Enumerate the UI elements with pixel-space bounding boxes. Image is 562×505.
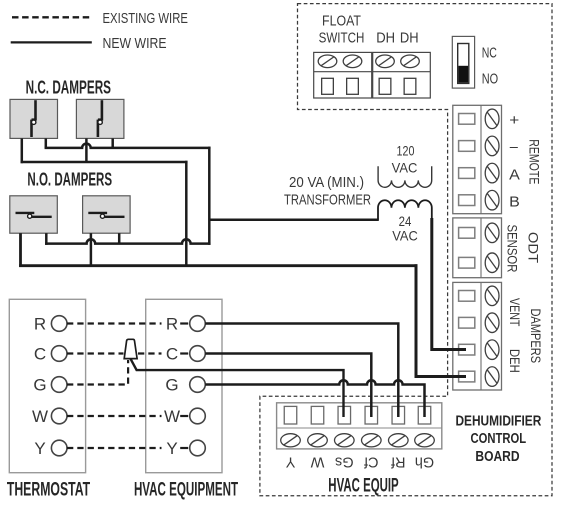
svg-text:CONTROL: CONTROL: [471, 431, 527, 447]
legend existing-wire sample: [12, 16, 92, 18]
HVAC EQUIP terminal strip: [277, 403, 442, 449]
svg-text:NC: NC: [482, 45, 497, 62]
wire: NC1 left terminal down: [21, 138, 24, 163]
svg-text:Rf: Rf: [390, 454, 405, 470]
svg-text:120: 120: [397, 143, 415, 159]
svg-text:N.C. DAMPERS: N.C. DAMPERS: [26, 77, 111, 97]
svg-text:FLOAT: FLOAT: [322, 12, 361, 29]
wire: NO2 left terminal down: [90, 233, 93, 266]
wire nut joining C and G: [124, 339, 137, 358]
thermostat box: [9, 299, 85, 472]
svg-text:ODT: ODT: [525, 232, 540, 263]
damper NO2 (normally-open actuator): [83, 196, 131, 233]
svg-text:BOARD: BOARD: [475, 449, 519, 465]
wire: NO2 right terminal down: [118, 233, 121, 243]
existing wire: thermostat G to wire nut (dashed, turns up): [67, 360, 128, 385]
svg-text:HVAC EQUIP: HVAC EQUIP: [328, 475, 399, 496]
wire: NC right-terminal bus with hop over NC2-left: [45, 144, 211, 148]
svg-text:HVAC EQUIPMENT: HVAC EQUIPMENT: [134, 479, 238, 500]
dehumidifier enclosure boundary (dashed): [260, 4, 552, 496]
svg-text:R: R: [34, 315, 46, 334]
existing wire: thermostat R to HVAC R (dashed): [67, 322, 162, 324]
HVAC equipment box: [146, 299, 222, 472]
svg-text:VAC: VAC: [392, 228, 418, 244]
wire: vertical riser x=186.3: [185, 161, 188, 266]
svg-text:Y: Y: [285, 454, 295, 470]
damper NC2 (normally-closed actuator): [76, 99, 124, 138]
svg-text:G: G: [165, 376, 178, 395]
terminal strip: REMOTE (+ - A B): [453, 105, 502, 213]
legend new-wire sample: [11, 41, 92, 43]
svg-text:NO: NO: [482, 70, 498, 87]
svg-text:Gh: Gh: [415, 454, 434, 470]
svg-text:Y: Y: [166, 439, 177, 458]
svg-text:20 VA (MIN.): 20 VA (MIN.): [289, 174, 364, 191]
svg-text:Y: Y: [34, 439, 45, 458]
terminal strip: ODT SENSOR: [453, 218, 502, 278]
svg-text:SWITCH: SWITCH: [319, 29, 365, 46]
svg-text:Gs: Gs: [335, 454, 354, 470]
svg-text:DAMPERS: DAMPERS: [528, 308, 543, 363]
damper NO1 (normally-open actuator): [10, 196, 58, 233]
svg-text:DEHUMIDIFIER: DEHUMIDIFIER: [455, 413, 541, 429]
wire: NO right-terminal bus with hops: [45, 239, 211, 243]
svg-text:DEH: DEH: [507, 349, 522, 373]
wire: transformer secondary right to DEH row 3: [432, 218, 466, 350]
damper NC1 (normally-closed actuator): [10, 99, 58, 138]
svg-text:N.O. DAMPERS: N.O. DAMPERS: [27, 170, 112, 190]
svg-text:TRANSFORMER: TRANSFORMER: [284, 191, 371, 208]
existing wire: thermostat W to HVAC W (dashed): [67, 415, 162, 417]
svg-text:A: A: [509, 168, 520, 184]
svg-text:VENT: VENT: [507, 298, 522, 326]
wire: NC2 right terminal down: [111, 138, 114, 148]
new wire: HVAC C to Cf: [205, 354, 371, 418]
svg-text:THERMOSTAT: THERMOSTAT: [7, 479, 91, 500]
svg-text:VAC: VAC: [392, 159, 418, 175]
svg-text:Cf: Cf: [363, 454, 378, 470]
transformer T1 secondary winding (24 VAC): [378, 200, 432, 219]
svg-text:R: R: [166, 315, 178, 334]
transformer T1 primary winding (120 VAC): [378, 166, 432, 187]
terminal strip: DAMPERS (VENT/DEH): [453, 282, 502, 390]
svg-text:B: B: [509, 194, 520, 210]
wire: NO1 right terminal down: [45, 233, 48, 245]
float switch / DH terminal block: [314, 52, 431, 98]
wire: vertical riser x=209.3: [208, 147, 211, 245]
svg-text:+: +: [509, 113, 519, 129]
wire: NC1 right terminal down: [45, 138, 48, 148]
svg-text:W: W: [310, 454, 324, 470]
svg-text:G: G: [33, 376, 46, 395]
svg-text:SENSOR: SENSOR: [505, 225, 520, 273]
wire: drop to DEH row 4: [416, 264, 466, 376]
svg-text:EXISTING WIRE: EXISTING WIRE: [103, 10, 188, 27]
wire: 24V bus to DEH (horizontal y=265.7): [19, 264, 417, 267]
wire: NC2 left terminal down (crossed by hop): [85, 138, 88, 162]
svg-text:NEW WIRE: NEW WIRE: [103, 35, 167, 52]
svg-text:REMOTE: REMOTE: [527, 139, 542, 184]
existing wire: thermostat C to wire nut and HVAC C (dashed): [67, 352, 124, 354]
svg-text:W: W: [32, 407, 48, 426]
svg-text:DH: DH: [400, 29, 419, 46]
wire: branch to transformer secondary left: [209, 218, 378, 221]
new wire: HVAC G to Gh with hops: [205, 380, 424, 417]
svg-text:DH: DH: [376, 29, 395, 46]
svg-text:C: C: [34, 345, 46, 364]
svg-text:W: W: [164, 407, 180, 426]
NC/NO selector slide switch: [452, 36, 474, 88]
svg-text:–: –: [510, 140, 519, 156]
svg-text:24: 24: [399, 213, 412, 229]
new wire: wire nut to Gs: [131, 359, 344, 417]
svg-text:C: C: [166, 345, 178, 364]
wire: NO1 left terminal down: [19, 233, 22, 267]
existing wire: thermostat Y to HVAC Y (dashed): [67, 447, 162, 449]
wire: NC left-terminal bus (horizontal): [21, 161, 188, 164]
new wire: HVAC R to Rf: [205, 324, 398, 418]
